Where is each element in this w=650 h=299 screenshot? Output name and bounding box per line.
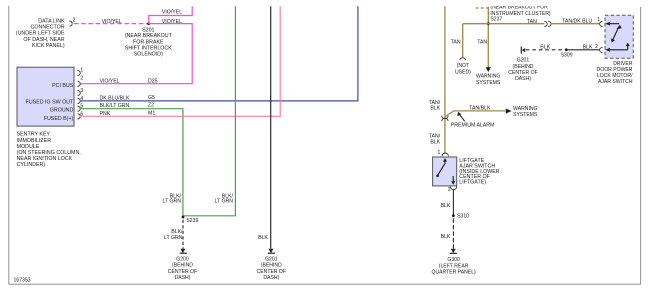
svg-text:WARNING: WARNING <box>476 74 500 80</box>
wire TAN not-used branch going down <box>462 24 464 58</box>
svg-text:VIO/YEL: VIO/YEL <box>100 79 120 85</box>
label TAN/DK BLU and pin 1 <box>562 17 600 24</box>
arrow to warning systems <box>486 67 491 72</box>
svg-text:SYSTEMS: SYSTEMS <box>513 112 538 118</box>
svg-text:BLK: BLK <box>583 44 593 50</box>
label BLK on dashed segment <box>540 44 550 50</box>
label BLK/LT GRN above left of S239 <box>162 193 181 204</box>
svg-text:G5: G5 <box>148 95 155 101</box>
label BLK and pin 2 <box>583 44 599 51</box>
connector: data link connector label <box>16 18 65 49</box>
switch contact arm inside liftgate switch <box>436 158 447 177</box>
svg-text:LIFTGATE): LIFTGATE) <box>459 180 486 186</box>
svg-text:G201: G201 <box>265 257 278 263</box>
wire PNK from SKIM pin 6 to top of page <box>80 6 280 116</box>
label BLK/LT GRN on dashed ground lead <box>164 229 183 241</box>
svg-text:FUSED IG SW OUT: FUSED IG SW OUT <box>26 99 74 105</box>
label driver door switch caption <box>597 61 634 85</box>
ground G201 right-side symbol <box>521 47 525 54</box>
svg-text:PNK: PNK <box>100 111 111 117</box>
pin 1 of SKIM <box>77 68 83 76</box>
svg-text:VIO/YEL: VIO/YEL <box>162 19 182 25</box>
node S237 splice dot <box>487 22 490 25</box>
svg-text:(LEFT REAR: (LEFT REAR <box>439 263 469 269</box>
svg-text:FOR BRAKE: FOR BRAKE <box>133 39 164 45</box>
svg-text:S310: S310 <box>457 213 469 219</box>
pin 1 connector arc of door switch <box>600 21 603 26</box>
svg-text:DATA LINK: DATA LINK <box>38 18 65 24</box>
label BLK on dashed ground lead <box>441 234 451 240</box>
svg-text:QUARTER PANEL): QUARTER PANEL) <box>431 270 476 276</box>
svg-text:(BEHIND: (BEHIND <box>261 263 282 269</box>
label TAN/BLK on branch <box>469 106 491 112</box>
node S239 splice dot <box>182 216 199 224</box>
label PREMIUM ALARM with callout arrow <box>451 112 495 129</box>
svg-text:CONNECTOR: CONNECTOR <box>31 25 65 31</box>
label BLK above G201 <box>258 235 268 241</box>
svg-text:VIO/YEL: VIO/YEL <box>102 19 122 25</box>
label WARNING SYSTEMS premium branch <box>513 106 538 118</box>
label G201 caption <box>257 257 286 282</box>
pin 2 connector arc of door switch <box>600 47 603 52</box>
wire VIO/YEL dashed from DLC to S201 <box>74 23 149 25</box>
pin 2 of liftgate switch <box>448 186 457 193</box>
svg-text:BLK: BLK <box>430 139 440 145</box>
wire DK BLU/BLK from SKIM pin 4 to top of page <box>80 6 358 101</box>
label NOT USED caption <box>455 63 471 75</box>
module: sentry key immobilizer module box <box>17 67 74 126</box>
node S309 splice dot <box>561 48 573 58</box>
svg-text:DASH): DASH) <box>515 76 531 82</box>
connector premium alarm inline arcs <box>442 116 448 121</box>
svg-text:(NOT: (NOT <box>457 63 469 69</box>
label VIO/YEL on dashed DLC wire <box>102 19 122 25</box>
ground G200 symbol <box>180 249 187 253</box>
label GROUND inside SKIM <box>50 107 74 113</box>
svg-text:LT GRN: LT GRN <box>164 235 183 241</box>
svg-text:G300: G300 <box>447 257 460 263</box>
svg-text:Z2: Z2 <box>148 102 154 108</box>
svg-text:MODULE: MODULE <box>17 144 40 150</box>
svg-text:IMMOBILIZER: IMMOBILIZER <box>17 138 52 144</box>
switch: liftgate ajar switch box <box>433 157 457 186</box>
svg-text:BLK: BLK <box>430 106 440 112</box>
svg-text:PREMIUM ALARM: PREMIUM ALARM <box>451 123 495 129</box>
pin 3 of SKIM <box>77 88 83 96</box>
wire TAN from top down through S237 to warning systems arrow <box>487 7 489 68</box>
label 167353 diagram number <box>14 278 31 284</box>
clip strip hiding content above content area <box>0 0 650 6</box>
label VIO/YEL D25 wire labels <box>100 79 158 85</box>
svg-text:WARNING: WARNING <box>513 106 537 112</box>
label BLK/LT GRN above right vertical green <box>214 193 233 204</box>
label TAN/BLK lower <box>429 134 441 146</box>
svg-text:BLK: BLK <box>441 203 451 209</box>
wire BLK/LT GRN dashed from S239 to G200 <box>182 220 184 249</box>
svg-text:BLK: BLK <box>441 234 451 240</box>
svg-text:SYSTEMS: SYSTEMS <box>476 80 501 86</box>
svg-text:DASH): DASH) <box>263 275 279 281</box>
label G300 caption <box>431 257 476 275</box>
wire BLK/LT GRN from SKIM pin 5 down to S239 <box>80 109 183 217</box>
svg-text:(NEAR BREAKOUT: (NEAR BREAKOUT <box>125 33 173 39</box>
svg-text:OF DASH, NEAR: OF DASH, NEAR <box>23 37 64 43</box>
svg-text:NEAR IGNITION LOCK: NEAR IGNITION LOCK <box>17 156 73 162</box>
label TAN before inline connector <box>527 19 537 25</box>
svg-text:BLK: BLK <box>540 44 550 50</box>
svg-text:LT GRN: LT GRN <box>214 199 233 205</box>
svg-text:AJAR SWITCH: AJAR SWITCH <box>598 79 633 85</box>
wire BLK from liftgate pin 2 down to S310 <box>452 190 454 215</box>
wire TAN dashed stub at top going to S237 <box>476 7 489 9</box>
label TAN/BLK upper <box>429 100 441 112</box>
label TAN left branch <box>451 40 461 46</box>
svg-text:2: 2 <box>595 44 598 50</box>
svg-text:TAN: TAN <box>527 19 537 25</box>
svg-text:167353: 167353 <box>14 278 31 284</box>
pin 2 of data link connector <box>69 18 75 27</box>
svg-text:(ON STEERING COLUMN,: (ON STEERING COLUMN, <box>17 150 81 156</box>
label FUSED B(+) inside SKIM <box>44 116 74 122</box>
label TAN right branch <box>477 40 487 46</box>
svg-text:TAN: TAN <box>451 40 461 46</box>
switch contact upper arm <box>605 22 622 43</box>
svg-text:GROUND: GROUND <box>50 107 74 113</box>
label sentry key immobilizer module caption <box>17 132 81 169</box>
connector double arc inline <box>544 21 551 26</box>
svg-text:(BEHIND: (BEHIND <box>172 263 193 269</box>
label VIO/YEL upper branch <box>162 10 182 16</box>
svg-text:LT GRN: LT GRN <box>162 199 181 205</box>
node S201 splice dot <box>147 22 150 25</box>
wire TAN/DK BLU from connector to door switch pin 1 <box>551 23 599 25</box>
ground G201 symbol <box>268 249 275 253</box>
svg-text:SOLENOID): SOLENOID) <box>134 52 163 58</box>
label DK BLU/BLK G5 wire labels <box>100 95 156 101</box>
label G200 caption <box>168 257 197 282</box>
label WARNING SYSTEMS under tan arrow <box>476 74 501 86</box>
svg-text:DK BLU/BLK: DK BLU/BLK <box>100 95 131 101</box>
svg-text:1: 1 <box>80 68 83 74</box>
svg-text:D25: D25 <box>148 79 158 85</box>
wire TAN horizontal from not-used branch through S237 to connector <box>463 23 545 25</box>
svg-text:BLK: BLK <box>258 235 268 241</box>
svg-text:SENTRY KEY: SENTRY KEY <box>17 132 51 138</box>
label S237 splice caption (top line clipped by viewport) <box>490 5 550 23</box>
svg-text:CYLINDER): CYLINDER) <box>17 162 46 168</box>
svg-text:3: 3 <box>80 88 83 94</box>
svg-text:KICK PANEL): KICK PANEL) <box>32 43 65 49</box>
wire VIO/YEL from S201 down to SKIM pin 2 (D25) <box>80 24 192 84</box>
switch exit down arrow to pin 2 <box>451 176 455 185</box>
svg-text:VIO/YEL: VIO/YEL <box>162 10 182 16</box>
wire BLK dashed from S310 to G300 <box>452 218 454 248</box>
pin 4 of SKIM <box>77 96 83 104</box>
label S201 splice caption <box>125 27 173 57</box>
svg-text:TAN/BLK: TAN/BLK <box>469 106 491 112</box>
wire BLK solid from S309 to door switch pin 2 <box>568 49 600 51</box>
switch contact lower arm <box>605 43 630 52</box>
svg-text:TAN: TAN <box>477 40 487 46</box>
label G201 right-side caption <box>508 57 537 82</box>
wire VIO/YEL upper branch from S201 to top of page <box>149 6 193 23</box>
svg-text:G201: G201 <box>517 57 530 63</box>
switch: driver door power lock motor / ajar switch box <box>605 15 633 58</box>
label PNK M1 wire labels <box>100 110 156 116</box>
wire TAN/BLK branch to warning systems <box>445 109 512 117</box>
svg-text:1: 1 <box>438 150 441 156</box>
label VIO/YEL lower branch <box>162 19 182 25</box>
pin 5 of SKIM <box>77 104 83 112</box>
svg-text:CENTER OF: CENTER OF <box>168 269 197 275</box>
svg-text:USED): USED) <box>455 69 471 75</box>
svg-text:G200: G200 <box>176 257 189 263</box>
svg-text:2: 2 <box>80 76 83 82</box>
wire BLK/LT GRN from top of page down to S239 <box>184 6 236 216</box>
svg-text:CENTER OF: CENTER OF <box>257 269 286 275</box>
svg-text:2: 2 <box>73 18 76 24</box>
svg-text:(UNDER LEFT SIDE: (UNDER LEFT SIDE <box>16 31 65 37</box>
svg-text:SHIFT INTERLOCK: SHIFT INTERLOCK <box>125 46 172 52</box>
label FUSED IG SW OUT inside SKIM <box>26 99 74 105</box>
svg-text:S237: S237 <box>490 17 502 23</box>
label PCI BUS inside SKIM <box>52 83 74 89</box>
svg-text:BLK/LT GRN: BLK/LT GRN <box>100 103 130 109</box>
svg-text:DASH): DASH) <box>175 275 191 281</box>
node S310 splice dot <box>452 213 469 219</box>
connector end cap for not used branch <box>460 58 466 60</box>
pin 6 of SKIM <box>77 111 83 119</box>
svg-text:S309: S309 <box>561 52 573 58</box>
wire BLK dashed from G201 to S309 <box>526 49 565 51</box>
label BLK/LT GRN Z2 wire labels <box>100 102 155 109</box>
svg-text:M1: M1 <box>148 110 155 116</box>
svg-text:(BEHIND: (BEHIND <box>513 64 534 70</box>
ground G300 symbol <box>450 249 457 254</box>
label liftgate ajar switch caption <box>459 158 499 185</box>
svg-text:PCI BUS: PCI BUS <box>52 83 74 89</box>
pin 1 of liftgate switch <box>438 150 449 156</box>
wire BLK from top of page down to G201 <box>270 6 272 248</box>
label BLK above S310 <box>441 203 451 209</box>
svg-text:FUSED B(+): FUSED B(+) <box>44 116 74 122</box>
wire TAN/BLK from top of page down to liftgate switch pin 1 <box>444 6 446 154</box>
pin 2 of SKIM <box>77 76 83 87</box>
svg-text:TAN/DK BLU: TAN/DK BLU <box>562 18 592 24</box>
svg-text:S239: S239 <box>186 218 198 224</box>
